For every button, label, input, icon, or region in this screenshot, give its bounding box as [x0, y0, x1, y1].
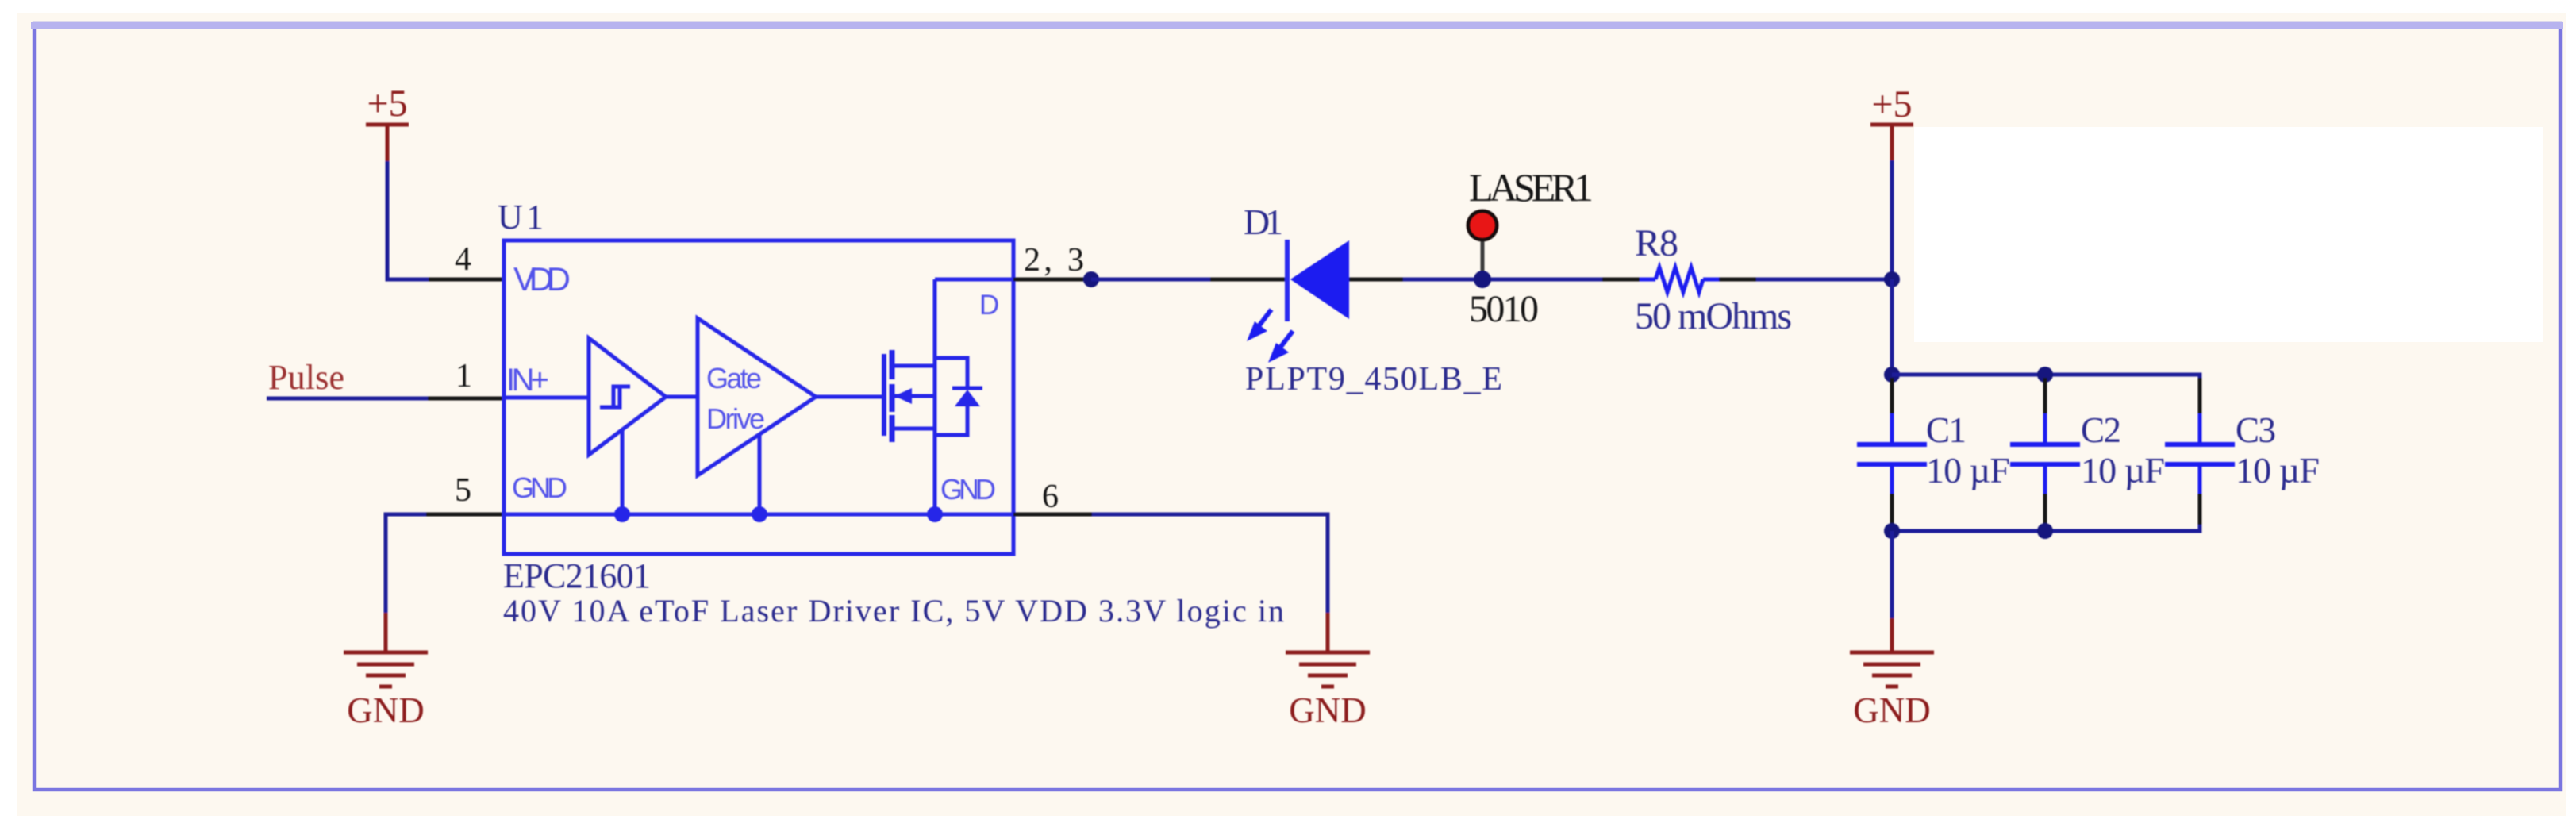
power symbol +5 (right) [1870, 83, 1913, 160]
body diode [935, 358, 982, 435]
wire gate-drive ground drop [758, 434, 762, 514]
test point LASER1 [1468, 165, 1594, 274]
svg-text:EPC21601: EPC21601 [503, 556, 651, 595]
wire R8 to +5 node [1756, 278, 1892, 282]
svg-text:Pulse: Pulse [268, 358, 344, 397]
junction LASER1 [1474, 271, 1491, 288]
wire pin 2,3 lead [1013, 278, 1094, 282]
svg-text:C3: C3 [2236, 410, 2276, 450]
svg-text:PLPT9_450LB_E: PLPT9_450LB_E [1245, 361, 1502, 398]
wire +5 down to node [1890, 160, 1894, 279]
wire cap bottom rail [1892, 525, 2200, 531]
IC U1 body [504, 240, 1013, 554]
wire pin 5 lead [426, 513, 504, 517]
svg-text:GND: GND [940, 473, 996, 506]
junction node 2,3 [1083, 271, 1099, 287]
laser diode D1 [1247, 240, 1349, 363]
svg-text:D1: D1 [1244, 202, 1283, 242]
svg-text:40V 10A eToF Laser Driver IC,: 40V 10A eToF Laser Driver IC, 5V VDD 3.3… [503, 593, 1284, 629]
junction schmitt-gnd [614, 506, 630, 522]
svg-text:6: 6 [1042, 479, 1059, 515]
svg-text:GND: GND [347, 690, 425, 730]
svg-text:5: 5 [455, 472, 471, 509]
svg-text:4: 4 [455, 241, 471, 278]
svg-text:GND: GND [1289, 690, 1367, 730]
wire D1 cathode lead [1210, 278, 1287, 282]
wire internal GND rail [504, 513, 1013, 517]
wire node to D1 [1091, 278, 1210, 282]
wire cap top rail [1892, 375, 2200, 381]
svg-text:10 µF: 10 µF [2236, 450, 2320, 490]
junction fet-gnd [927, 506, 943, 522]
junction gatedrive-gnd [752, 506, 767, 522]
wire drain to pin 2,3 [935, 278, 1013, 282]
svg-text:GND: GND [512, 471, 567, 504]
svg-text:10 µF: 10 µF [1926, 450, 2010, 490]
junction cap rail left [1884, 367, 1900, 383]
wire D1 anode lead [1349, 278, 1403, 282]
ground (left) [344, 613, 428, 730]
transistor GaN FET [884, 279, 935, 514]
capacitor C1 [1857, 378, 1927, 529]
wire schmitt to gate drive [666, 395, 698, 399]
wire pin 6 lead [1013, 513, 1092, 517]
wire pin 1 lead [428, 397, 504, 401]
junction cap rail C2 [2037, 367, 2053, 383]
svg-text:5010: 5010 [1469, 288, 1539, 330]
ground (middle) [1286, 613, 1370, 730]
svg-text:10 µF: 10 µF [2081, 450, 2165, 490]
capacitor C2 [2010, 378, 2080, 529]
wire gate lead [816, 395, 884, 399]
svg-text:+5: +5 [1871, 83, 1912, 125]
svg-text:C1: C1 [1926, 410, 1967, 450]
ground (right) [1850, 618, 1934, 730]
wire schmitt ground drop [621, 430, 625, 514]
svg-text:50 mOhms: 50 mOhms [1635, 295, 1792, 337]
gate drive amplifier [698, 318, 816, 475]
wire caps to ground [1890, 531, 1894, 618]
svg-text:+5: +5 [367, 83, 407, 125]
wire pin 5 to ground [386, 514, 426, 613]
wire node to cap rail [1890, 279, 1894, 375]
svg-text:R8: R8 [1635, 222, 1678, 264]
svg-text:IN+: IN+ [506, 363, 549, 398]
svg-text:Gate: Gate [706, 362, 762, 394]
svg-text:VDD: VDD [513, 260, 571, 298]
wire pin 4 lead [429, 278, 504, 282]
wire internal IN+ [504, 396, 589, 400]
wire pin 6 to ground [1092, 514, 1328, 613]
resistor R8 [1602, 267, 1756, 292]
schmitt trigger buffer [589, 338, 666, 455]
svg-text:GND: GND [1853, 690, 1931, 730]
svg-text:C2: C2 [2081, 410, 2121, 450]
wire Pulse input [267, 397, 428, 401]
capacitor C3 [2165, 378, 2235, 529]
svg-text:D: D [979, 290, 999, 321]
junction bottom rail C2 [2037, 523, 2053, 539]
svg-text:1: 1 [456, 358, 472, 394]
power symbol +5 (left) [366, 83, 409, 161]
wire D1 to R8 [1403, 278, 1602, 282]
svg-text:LASER1: LASER1 [1469, 165, 1594, 210]
svg-text:U1: U1 [498, 198, 544, 237]
junction bottom rail C1 [1884, 523, 1900, 539]
svg-text:Drive: Drive [706, 402, 765, 435]
wire +5 to pin 4 [387, 161, 429, 279]
junction +5/R8 [1884, 271, 1900, 287]
